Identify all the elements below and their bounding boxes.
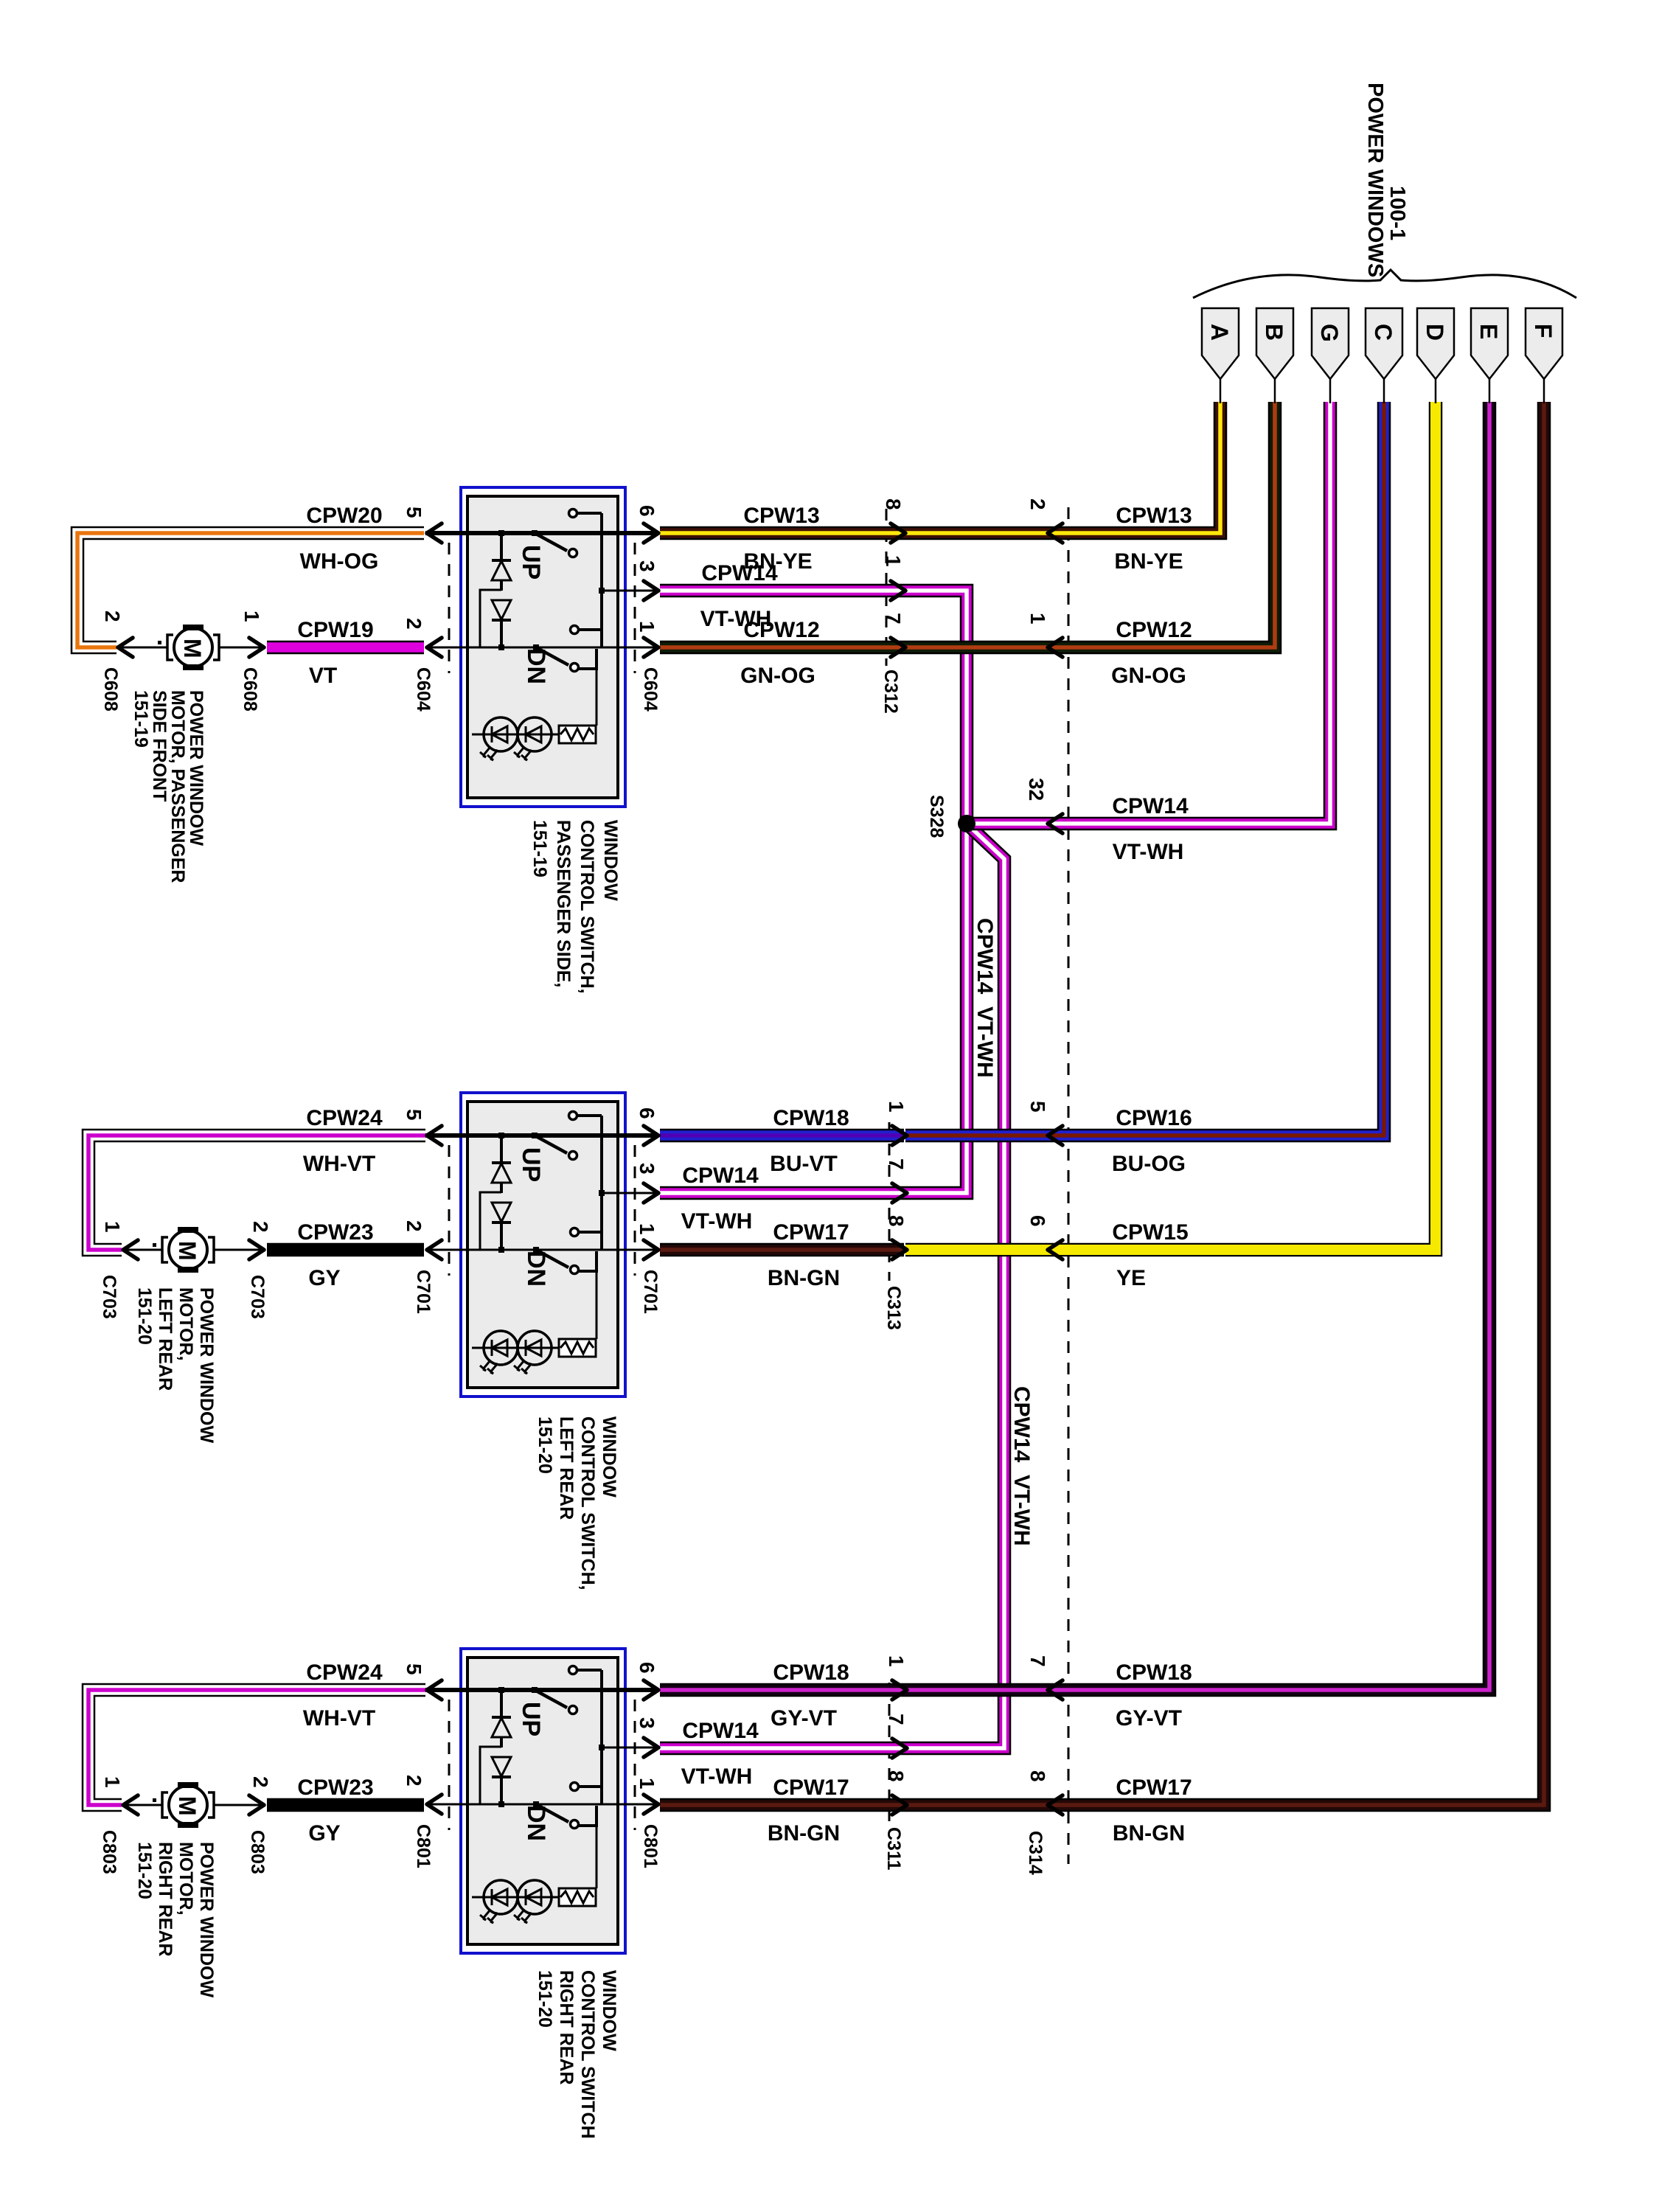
svg-text:1: 1 [636, 1223, 658, 1235]
svg-text:2: 2 [403, 1220, 425, 1232]
svg-text:151-20: 151-20 [134, 1842, 155, 1899]
svg-text:8: 8 [885, 1770, 908, 1782]
svg-text:151-19: 151-19 [131, 690, 151, 748]
svg-text:C311: C311 [883, 1827, 904, 1870]
svg-text:C803: C803 [247, 1830, 268, 1874]
svg-text:1: 1 [1026, 613, 1049, 625]
svg-text:C701: C701 [640, 1270, 661, 1314]
svg-text:7: 7 [885, 1158, 908, 1170]
svg-text:151-20: 151-20 [535, 1416, 555, 1474]
svg-text:LEFT REAR: LEFT REAR [556, 1416, 577, 1520]
svg-text:CONTROL SWITCH: CONTROL SWITCH [577, 1970, 598, 2139]
svg-text:CONTROL SWITCH,: CONTROL SWITCH, [577, 820, 597, 994]
svg-text:3: 3 [636, 1717, 658, 1729]
svg-text:32: 32 [1025, 778, 1048, 801]
svg-text:POWER WINDOWS: POWER WINDOWS [1363, 83, 1387, 277]
svg-text:2: 2 [403, 1775, 425, 1787]
svg-text:GN-OG: GN-OG [740, 664, 815, 688]
svg-text:CPW12: CPW12 [743, 618, 819, 642]
svg-text:CPW14 VT-WH: CPW14 VT-WH [1009, 1386, 1034, 1546]
svg-text:C608: C608 [240, 667, 260, 712]
svg-text:RIGHT REAR: RIGHT REAR [155, 1842, 175, 1957]
svg-text:CPW15: CPW15 [1112, 1220, 1188, 1245]
svg-text:8: 8 [885, 1215, 908, 1227]
svg-text:G: G [1316, 324, 1343, 342]
svg-text:8: 8 [1026, 1770, 1049, 1782]
svg-text:BN-YE: BN-YE [1114, 549, 1183, 574]
svg-text:CPW23: CPW23 [297, 1220, 373, 1245]
svg-text:UP: UP [517, 1147, 545, 1182]
svg-text:POWER WINDOW: POWER WINDOW [186, 690, 206, 846]
svg-text:6: 6 [636, 505, 658, 517]
svg-text:GN-OG: GN-OG [1111, 664, 1186, 688]
svg-text:151-20: 151-20 [535, 1970, 555, 2028]
svg-text:C604: C604 [640, 667, 661, 712]
svg-text:6: 6 [1026, 1215, 1049, 1227]
svg-text:1: 1 [636, 621, 658, 633]
svg-text:5: 5 [403, 1109, 425, 1121]
svg-text:LEFT REAR: LEFT REAR [155, 1287, 175, 1391]
svg-text:CPW17: CPW17 [1116, 1775, 1192, 1800]
svg-text:151-19: 151-19 [529, 820, 550, 877]
svg-text:M: M [174, 1796, 201, 1816]
svg-text:1: 1 [101, 1221, 124, 1233]
svg-text:WH-VT: WH-VT [303, 1152, 375, 1176]
svg-text:CPW24: CPW24 [306, 1660, 383, 1685]
svg-text:1: 1 [882, 555, 905, 567]
svg-text:8: 8 [882, 498, 905, 510]
svg-text:PASSENGER SIDE,: PASSENGER SIDE, [553, 820, 574, 987]
svg-text:SIDE FRONT: SIDE FRONT [149, 690, 170, 801]
svg-text:C313: C313 [883, 1286, 904, 1330]
svg-text:C703: C703 [247, 1275, 268, 1319]
svg-text:S328: S328 [926, 795, 947, 838]
svg-text:5: 5 [403, 1663, 425, 1675]
svg-text:2: 2 [101, 611, 124, 622]
svg-text:E: E [1475, 324, 1502, 339]
svg-text:WINDOW: WINDOW [599, 1416, 619, 1498]
svg-text:1: 1 [885, 1101, 908, 1113]
svg-text:D: D [1422, 324, 1448, 341]
svg-text:F: F [1530, 324, 1557, 338]
svg-text:3: 3 [636, 560, 658, 572]
svg-text:CPW14: CPW14 [1112, 794, 1189, 818]
svg-text:UP: UP [517, 545, 545, 580]
svg-text:CPW13: CPW13 [1116, 504, 1192, 528]
svg-text:2: 2 [249, 1776, 272, 1788]
svg-text:MOTOR,: MOTOR, [175, 1287, 196, 1361]
svg-text:1: 1 [240, 611, 263, 622]
svg-text:VT: VT [309, 664, 337, 688]
svg-text:POWER WINDOW: POWER WINDOW [196, 1842, 217, 1997]
svg-text:GY: GY [308, 1821, 340, 1846]
svg-text:C701: C701 [413, 1270, 434, 1314]
svg-text:C314: C314 [1025, 1831, 1046, 1875]
svg-text:BU-OG: BU-OG [1112, 1152, 1186, 1176]
svg-text:CPW17: CPW17 [773, 1220, 849, 1245]
svg-text:GY-VT: GY-VT [1116, 1706, 1182, 1731]
svg-text:7: 7 [1026, 1655, 1049, 1667]
svg-text:CONTROL SWITCH,: CONTROL SWITCH, [577, 1416, 598, 1590]
svg-text:MOTOR,: MOTOR, [175, 1842, 196, 1916]
svg-text:C: C [1370, 324, 1397, 341]
svg-text:7: 7 [882, 613, 905, 625]
svg-text:2: 2 [1026, 498, 1049, 510]
svg-text:B: B [1261, 324, 1287, 341]
svg-text:CPW16: CPW16 [1116, 1106, 1192, 1130]
svg-text:CPW17: CPW17 [773, 1775, 849, 1800]
svg-text:CPW18: CPW18 [773, 1106, 849, 1130]
svg-text:C604: C604 [413, 667, 434, 712]
svg-text:C703: C703 [99, 1275, 119, 1319]
svg-text:M: M [174, 1241, 201, 1261]
svg-text:6: 6 [636, 1107, 658, 1119]
svg-text:C801: C801 [640, 1824, 661, 1868]
svg-text:DN: DN [522, 1805, 550, 1841]
svg-text:CPW20: CPW20 [306, 504, 382, 528]
svg-text:1: 1 [885, 1655, 908, 1667]
svg-text:WINDOW: WINDOW [600, 820, 621, 901]
svg-text:2: 2 [249, 1221, 272, 1233]
svg-text:VT-WH: VT-WH [1113, 840, 1184, 864]
svg-text:CPW14: CPW14 [682, 1719, 759, 1743]
svg-text:CPW19: CPW19 [297, 618, 373, 642]
svg-text:CPW24: CPW24 [306, 1106, 383, 1130]
svg-text:POWER WINDOW: POWER WINDOW [196, 1287, 217, 1443]
svg-text:CPW14 VT-WH: CPW14 VT-WH [973, 918, 997, 1078]
svg-text:GY-VT: GY-VT [771, 1706, 837, 1731]
svg-text:GY: GY [308, 1266, 340, 1290]
svg-text:MOTOR, PASSENGER: MOTOR, PASSENGER [167, 690, 188, 883]
svg-text:VT-WH: VT-WH [681, 1209, 753, 1234]
svg-text:UP: UP [517, 1702, 545, 1736]
svg-text:CPW18: CPW18 [773, 1660, 849, 1685]
svg-text:151-20: 151-20 [134, 1287, 155, 1345]
svg-text:CPW23: CPW23 [297, 1775, 373, 1800]
svg-text:6: 6 [636, 1662, 658, 1674]
svg-text:1: 1 [101, 1776, 124, 1788]
svg-text:DN: DN [522, 1251, 550, 1287]
svg-text:YE: YE [1116, 1266, 1146, 1290]
svg-text:WH-VT: WH-VT [303, 1706, 375, 1731]
svg-text:CPW14: CPW14 [701, 561, 778, 585]
svg-text:VT-WH: VT-WH [681, 1764, 753, 1789]
svg-text:1: 1 [636, 1778, 658, 1790]
svg-text:RIGHT REAR: RIGHT REAR [556, 1970, 577, 2085]
svg-text:CPW14: CPW14 [682, 1164, 759, 1188]
svg-text:CPW13: CPW13 [743, 504, 819, 528]
svg-text:C608: C608 [100, 667, 121, 712]
svg-text:WH-OG: WH-OG [300, 549, 379, 574]
svg-text:C801: C801 [413, 1824, 434, 1868]
svg-text:2: 2 [403, 618, 425, 630]
svg-text:5: 5 [1026, 1101, 1049, 1113]
svg-text:BN-GN: BN-GN [768, 1821, 840, 1846]
svg-text:100-1: 100-1 [1385, 186, 1409, 240]
svg-text:BU-VT: BU-VT [770, 1152, 838, 1176]
svg-text:DN: DN [522, 648, 550, 684]
svg-text:3: 3 [636, 1163, 658, 1175]
svg-text:BN-GN: BN-GN [1113, 1821, 1185, 1846]
svg-text:5: 5 [403, 507, 425, 518]
svg-text:M: M [179, 639, 206, 658]
svg-text:A: A [1206, 324, 1233, 341]
svg-text:CPW18: CPW18 [1116, 1660, 1192, 1685]
svg-text:CPW12: CPW12 [1116, 618, 1192, 642]
svg-text:WINDOW: WINDOW [599, 1970, 619, 2051]
svg-text:C312: C312 [880, 669, 901, 714]
svg-text:7: 7 [885, 1714, 908, 1725]
svg-text:BN-GN: BN-GN [768, 1266, 840, 1290]
svg-text:C803: C803 [99, 1830, 119, 1874]
